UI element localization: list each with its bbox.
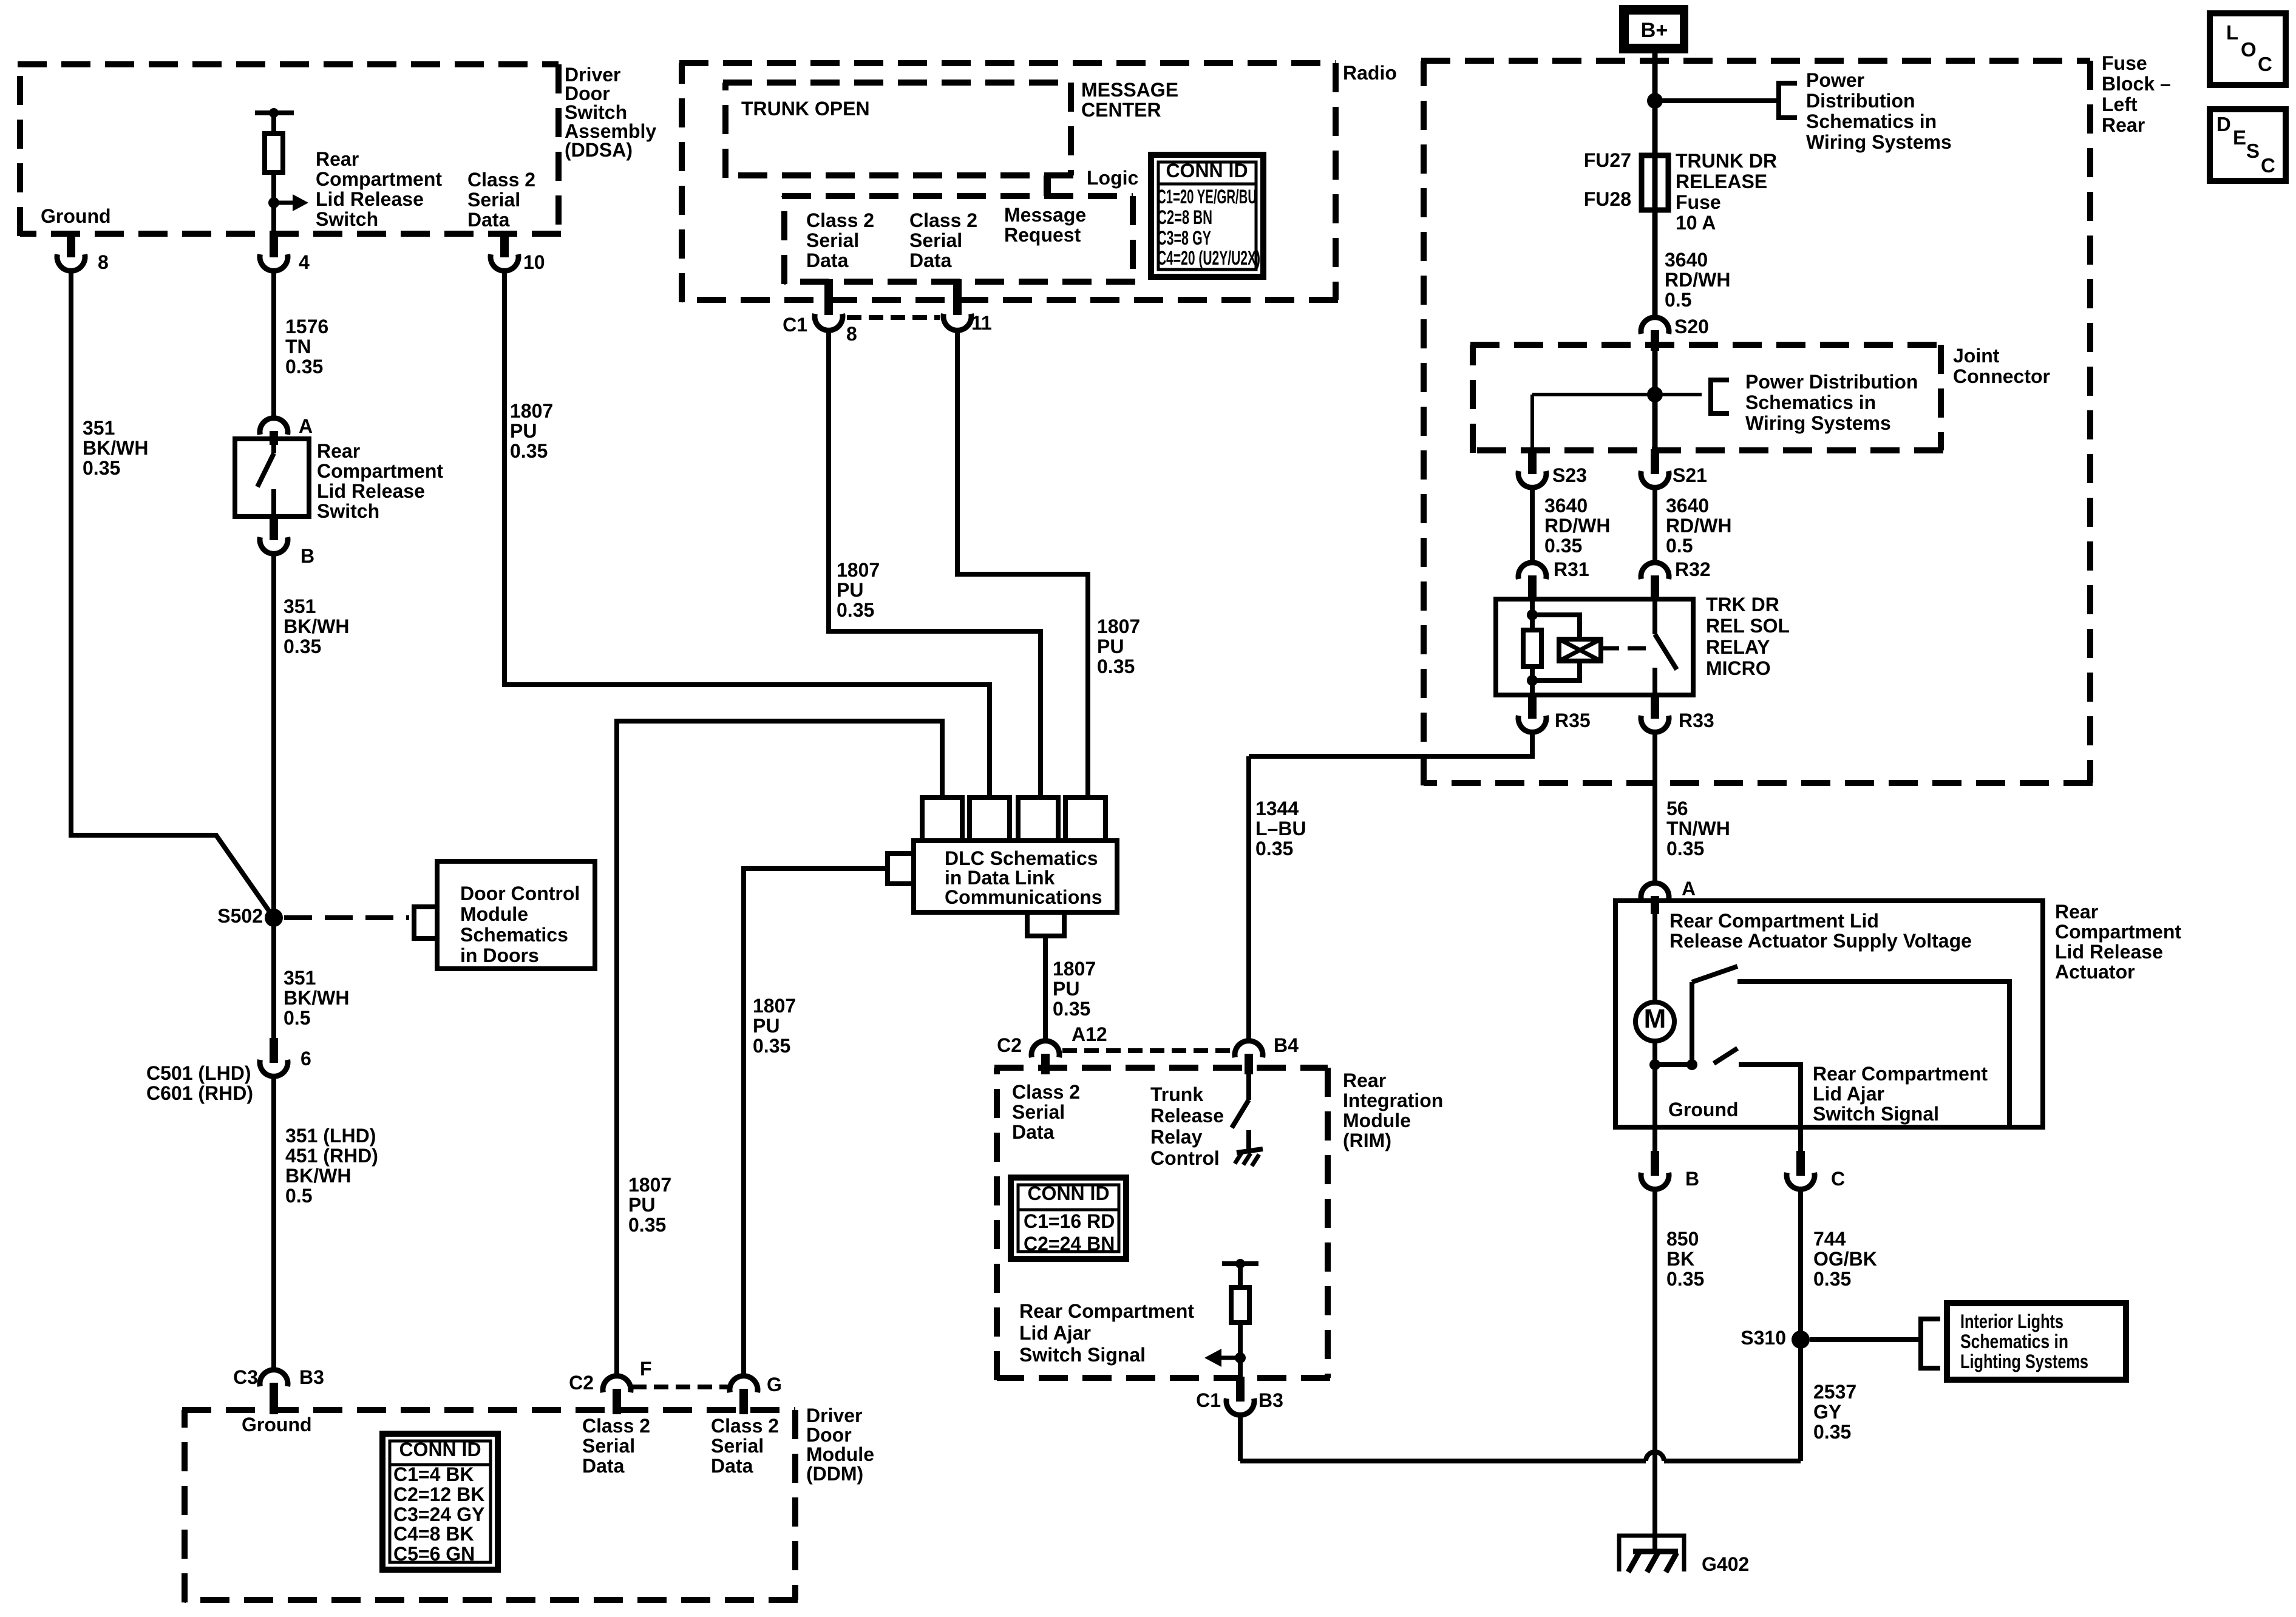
svg-text:0.5: 0.5 [284, 1007, 310, 1029]
svg-text:Data: Data [467, 209, 510, 231]
svg-text:Data: Data [711, 1455, 753, 1477]
svg-text:351 (LHD): 351 (LHD) [285, 1125, 376, 1147]
svg-text:(RIM): (RIM) [1343, 1130, 1391, 1151]
svg-text:B: B [301, 545, 314, 567]
svg-text:Distribution: Distribution [1806, 90, 1915, 112]
svg-text:TN: TN [285, 336, 311, 358]
svg-text:Door Control: Door Control [460, 883, 580, 904]
svg-text:Lid Ajar: Lid Ajar [1813, 1083, 1884, 1105]
svg-text:Rear Compartment Lid: Rear Compartment Lid [1669, 910, 1879, 932]
svg-text:1807: 1807 [1053, 958, 1096, 980]
svg-text:C1=20 YE/GR/BU: C1=20 YE/GR/BU [1157, 186, 1257, 208]
svg-text:C1: C1 [1196, 1389, 1221, 1411]
svg-text:Lid Release: Lid Release [316, 188, 424, 210]
svg-text:0.35: 0.35 [1053, 998, 1090, 1020]
svg-text:Rear: Rear [2055, 901, 2098, 923]
svg-text:Lighting Systems: Lighting Systems [1960, 1351, 2088, 1372]
svg-text:C: C [2261, 154, 2275, 177]
svg-text:Lid Release: Lid Release [2055, 941, 2163, 963]
svg-text:C3: C3 [233, 1366, 258, 1388]
svg-text:B3: B3 [299, 1366, 324, 1388]
svg-text:CONN ID: CONN ID [399, 1439, 481, 1460]
svg-text:0.5: 0.5 [1666, 535, 1693, 557]
svg-text:Ground: Ground [41, 205, 111, 227]
svg-text:Class 2: Class 2 [909, 209, 977, 231]
svg-text:C3=8 GY: C3=8 GY [1157, 227, 1211, 249]
svg-text:in Doors: in Doors [460, 944, 539, 966]
svg-text:B: B [1685, 1168, 1699, 1190]
svg-text:TRUNK OPEN: TRUNK OPEN [741, 98, 870, 120]
svg-text:3640: 3640 [1665, 249, 1708, 271]
svg-text:C: C [2258, 53, 2272, 75]
svg-text:E: E [2233, 126, 2246, 149]
svg-text:S: S [2246, 140, 2260, 162]
svg-text:Serial: Serial [711, 1435, 764, 1457]
svg-text:(DDSA): (DDSA) [565, 139, 633, 161]
svg-text:Rear Compartment: Rear Compartment [1019, 1300, 1194, 1322]
svg-text:L–BU: L–BU [1255, 818, 1306, 839]
svg-text:0.5: 0.5 [285, 1185, 312, 1207]
svg-text:10: 10 [523, 251, 545, 273]
svg-text:Schematics in: Schematics in [1745, 392, 1876, 413]
svg-text:C5=6 GN: C5=6 GN [393, 1543, 475, 1565]
svg-text:B3: B3 [1258, 1389, 1283, 1411]
svg-text:R31: R31 [1554, 558, 1589, 580]
svg-text:TRUNK DR: TRUNK DR [1676, 150, 1777, 172]
svg-text:Door: Door [806, 1424, 852, 1446]
svg-text:Class 2: Class 2 [582, 1415, 650, 1437]
svg-text:3640: 3640 [1544, 495, 1588, 517]
svg-text:Communications: Communications [945, 886, 1102, 908]
svg-text:DLC Schematics: DLC Schematics [945, 847, 1098, 869]
svg-text:2537: 2537 [1813, 1381, 1856, 1403]
svg-text:Switch: Switch [317, 500, 379, 522]
svg-text:850: 850 [1666, 1228, 1699, 1250]
svg-text:Switch Signal: Switch Signal [1813, 1103, 1939, 1125]
svg-text:1807: 1807 [510, 400, 553, 422]
svg-text:C: C [1831, 1168, 1845, 1190]
svg-text:O: O [2241, 38, 2257, 61]
svg-text:C1=16 RD: C1=16 RD [1024, 1210, 1115, 1232]
svg-text:0.35: 0.35 [1813, 1421, 1851, 1443]
svg-text:G402: G402 [1702, 1553, 1749, 1575]
svg-text:Lid Release: Lid Release [317, 480, 425, 502]
svg-text:351: 351 [284, 595, 316, 617]
svg-text:B+: B+ [1641, 19, 1668, 42]
svg-text:Switch Signal: Switch Signal [1019, 1344, 1146, 1366]
svg-text:Compartment: Compartment [316, 168, 442, 190]
svg-text:Rear Compartment: Rear Compartment [1813, 1063, 1988, 1085]
svg-text:C1=4 BK: C1=4 BK [393, 1463, 474, 1485]
svg-text:B4: B4 [1274, 1034, 1299, 1056]
svg-text:Interior Lights: Interior Lights [1960, 1310, 2063, 1332]
svg-text:R32: R32 [1675, 558, 1711, 580]
svg-text:RELEASE: RELEASE [1676, 171, 1767, 192]
svg-text:PU: PU [837, 579, 863, 601]
svg-text:Release Actuator Supply Voltag: Release Actuator Supply Voltage [1669, 930, 1972, 952]
svg-text:Lid Ajar: Lid Ajar [1019, 1322, 1091, 1344]
svg-text:Class 2: Class 2 [806, 209, 874, 231]
svg-text:Wiring Systems: Wiring Systems [1745, 412, 1891, 434]
svg-text:Compartment: Compartment [2055, 921, 2181, 943]
svg-text:451 (RHD): 451 (RHD) [285, 1145, 378, 1167]
svg-text:Class 2: Class 2 [1012, 1081, 1080, 1103]
svg-text:8: 8 [846, 323, 857, 345]
svg-text:Relay: Relay [1150, 1126, 1203, 1148]
svg-text:351: 351 [284, 967, 316, 989]
svg-text:C4=20 (U2Y/U2X): C4=20 (U2Y/U2X) [1157, 247, 1260, 269]
svg-text:4: 4 [299, 251, 310, 273]
svg-text:G: G [767, 1374, 782, 1395]
svg-text:Serial: Serial [909, 229, 962, 251]
svg-text:0.35: 0.35 [753, 1035, 790, 1057]
svg-text:C601 (RHD): C601 (RHD) [146, 1082, 253, 1104]
svg-text:Schematics in: Schematics in [1806, 110, 1937, 132]
svg-text:PU: PU [1097, 636, 1124, 657]
svg-text:Integration: Integration [1343, 1090, 1443, 1111]
svg-text:S21: S21 [1673, 464, 1707, 486]
svg-text:MICRO: MICRO [1706, 657, 1771, 679]
svg-text:Ground: Ground [242, 1414, 312, 1436]
svg-text:1807: 1807 [837, 559, 880, 581]
svg-text:1807: 1807 [628, 1174, 671, 1196]
svg-text:A: A [1682, 878, 1696, 900]
svg-text:C4=8 BK: C4=8 BK [393, 1523, 474, 1545]
svg-text:0.35: 0.35 [285, 356, 323, 378]
svg-text:S310: S310 [1741, 1327, 1786, 1349]
svg-text:S23: S23 [1552, 464, 1587, 486]
svg-text:R35: R35 [1555, 710, 1591, 731]
svg-text:8: 8 [98, 251, 109, 273]
svg-text:CONN ID: CONN ID [1027, 1182, 1109, 1204]
svg-text:Schematics: Schematics [460, 924, 568, 946]
svg-text:RD/WH: RD/WH [1544, 515, 1610, 537]
svg-text:GY: GY [1813, 1401, 1841, 1423]
svg-text:Connector: Connector [1953, 365, 2050, 387]
svg-text:Fuse: Fuse [2102, 52, 2147, 74]
svg-text:0.35: 0.35 [510, 440, 548, 462]
svg-text:Data: Data [909, 249, 952, 271]
svg-text:PU: PU [753, 1015, 779, 1037]
svg-text:Request: Request [1004, 224, 1081, 246]
svg-text:Wiring Systems: Wiring Systems [1806, 131, 1952, 153]
svg-text:1344: 1344 [1255, 798, 1299, 819]
svg-text:Module: Module [806, 1443, 874, 1465]
svg-text:0.35: 0.35 [1544, 535, 1582, 557]
svg-text:RD/WH: RD/WH [1666, 515, 1731, 537]
svg-text:Class 2: Class 2 [467, 169, 535, 191]
svg-text:Block –: Block – [2102, 73, 2171, 95]
svg-text:Release: Release [1150, 1105, 1224, 1127]
svg-text:Data: Data [1012, 1121, 1055, 1143]
svg-text:Class 2: Class 2 [711, 1415, 779, 1437]
svg-text:F: F [640, 1358, 652, 1380]
svg-text:Fuse: Fuse [1676, 191, 1721, 213]
svg-text:C2=12 BK: C2=12 BK [393, 1483, 484, 1505]
svg-text:BK/WH: BK/WH [284, 615, 349, 637]
svg-text:1576: 1576 [285, 316, 328, 337]
svg-text:Serial: Serial [582, 1435, 635, 1457]
svg-text:PU: PU [510, 420, 537, 442]
svg-text:OG/BK: OG/BK [1813, 1248, 1877, 1270]
svg-text:RELAY: RELAY [1706, 636, 1770, 658]
svg-text:CONN ID: CONN ID [1166, 160, 1248, 181]
svg-text:Actuator: Actuator [2055, 961, 2135, 983]
svg-text:0.35: 0.35 [83, 457, 120, 479]
svg-text:56: 56 [1666, 798, 1688, 819]
svg-text:S502: S502 [217, 905, 263, 927]
svg-text:FU28: FU28 [1584, 188, 1631, 210]
svg-text:C2: C2 [997, 1034, 1022, 1056]
svg-text:Serial: Serial [806, 229, 859, 251]
svg-text:Compartment: Compartment [317, 460, 443, 482]
svg-text:Rear: Rear [317, 440, 360, 462]
svg-text:Power Distribution: Power Distribution [1745, 371, 1918, 393]
svg-text:REL SOL: REL SOL [1706, 615, 1790, 637]
svg-text:(DDM): (DDM) [806, 1463, 863, 1485]
svg-text:BK/WH: BK/WH [284, 987, 349, 1009]
svg-text:C1: C1 [783, 314, 807, 336]
svg-text:Power: Power [1806, 69, 1864, 91]
svg-text:1807: 1807 [1097, 615, 1140, 637]
svg-text:Serial: Serial [467, 189, 520, 211]
svg-text:Rear: Rear [1343, 1070, 1386, 1091]
svg-text:C3=24 GY: C3=24 GY [393, 1503, 484, 1525]
svg-text:Trunk: Trunk [1150, 1083, 1203, 1105]
svg-text:CENTER: CENTER [1081, 99, 1161, 121]
svg-text:PU: PU [1053, 978, 1079, 1000]
svg-text:BK/WH: BK/WH [285, 1165, 351, 1187]
svg-text:M: M [1644, 1004, 1666, 1034]
svg-text:A: A [299, 415, 313, 437]
svg-text:R33: R33 [1679, 710, 1714, 731]
svg-text:744: 744 [1813, 1228, 1846, 1250]
svg-text:Module: Module [460, 903, 528, 925]
svg-text:L: L [2226, 21, 2238, 44]
svg-text:MESSAGE: MESSAGE [1081, 79, 1178, 101]
svg-text:A12: A12 [1072, 1023, 1107, 1045]
svg-text:C2: C2 [569, 1372, 594, 1394]
svg-text:0.35: 0.35 [1097, 656, 1135, 677]
svg-text:3640: 3640 [1666, 495, 1709, 517]
svg-text:Ground: Ground [1668, 1099, 1739, 1120]
svg-text:FU27: FU27 [1584, 149, 1631, 171]
svg-text:Radio: Radio [1343, 62, 1397, 84]
svg-text:Module: Module [1343, 1110, 1411, 1131]
svg-text:6: 6 [301, 1048, 311, 1070]
svg-text:TN/WH: TN/WH [1666, 818, 1730, 839]
svg-text:Logic: Logic [1087, 167, 1138, 189]
svg-text:0.5: 0.5 [1665, 289, 1691, 311]
svg-text:0.35: 0.35 [1813, 1268, 1851, 1290]
svg-text:Message: Message [1004, 204, 1086, 226]
svg-text:Data: Data [582, 1455, 625, 1477]
svg-text:Switch: Switch [316, 208, 378, 230]
svg-text:0.35: 0.35 [1666, 838, 1704, 859]
svg-text:RD/WH: RD/WH [1665, 269, 1730, 291]
svg-text:in Data Link: in Data Link [945, 867, 1055, 889]
svg-text:TRK DR: TRK DR [1706, 594, 1779, 615]
svg-text:Driver: Driver [806, 1405, 863, 1426]
svg-text:1807: 1807 [753, 995, 796, 1017]
svg-text:D: D [2216, 113, 2231, 135]
svg-text:0.35: 0.35 [1666, 1268, 1704, 1290]
svg-text:BK/WH: BK/WH [83, 437, 148, 459]
svg-text:Rear: Rear [316, 148, 359, 170]
svg-text:0.35: 0.35 [628, 1214, 666, 1236]
svg-text:BK: BK [1666, 1248, 1694, 1270]
svg-text:Control: Control [1150, 1147, 1220, 1169]
svg-text:C2=8 BN: C2=8 BN [1157, 206, 1212, 228]
svg-text:11: 11 [971, 312, 992, 334]
svg-text:Serial: Serial [1012, 1101, 1065, 1123]
svg-text:Joint: Joint [1953, 345, 2000, 367]
svg-text:Schematics in: Schematics in [1960, 1331, 2068, 1352]
svg-text:10 A: 10 A [1676, 212, 1716, 234]
svg-text:C2=24 BN: C2=24 BN [1024, 1233, 1115, 1255]
svg-text:0.35: 0.35 [837, 599, 874, 621]
svg-text:Left: Left [2102, 93, 2138, 115]
svg-text:S20: S20 [1674, 316, 1709, 337]
svg-text:Rear: Rear [2102, 114, 2145, 136]
svg-text:C501 (LHD): C501 (LHD) [146, 1062, 251, 1084]
svg-text:Data: Data [806, 249, 849, 271]
svg-text:0.35: 0.35 [1255, 838, 1293, 859]
svg-text:351: 351 [83, 417, 115, 439]
svg-text:PU: PU [628, 1194, 655, 1216]
svg-text:0.35: 0.35 [284, 636, 321, 657]
